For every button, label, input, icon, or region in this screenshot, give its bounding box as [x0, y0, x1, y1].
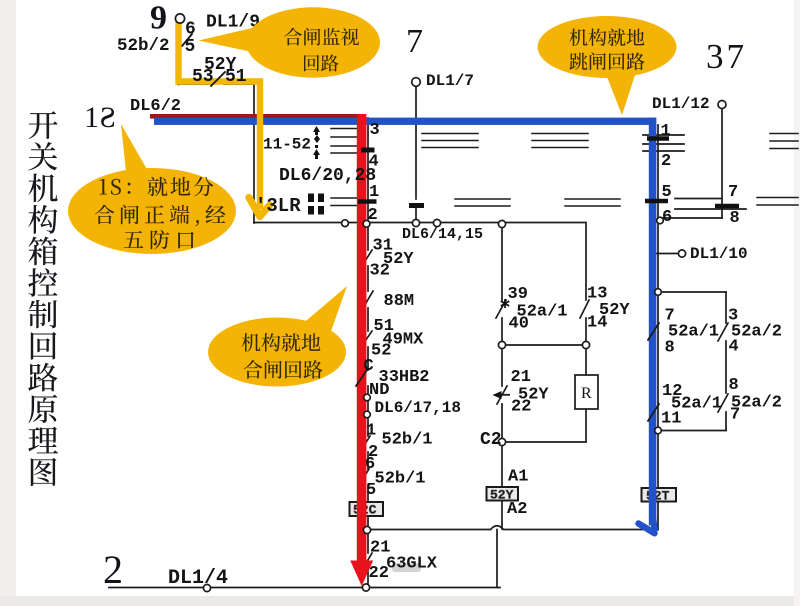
svg-text:1: 1	[369, 183, 379, 202]
svg-text:52a/1: 52a/1	[668, 323, 719, 342]
svg-text:32: 32	[370, 262, 390, 281]
svg-text:37: 37	[706, 37, 747, 76]
svg-text:21: 21	[511, 368, 531, 387]
svg-text:7: 7	[728, 183, 738, 202]
svg-text:53: 53	[192, 67, 214, 87]
svg-text:8: 8	[730, 209, 740, 228]
svg-text:22: 22	[369, 564, 389, 583]
svg-text:7: 7	[406, 23, 423, 60]
svg-text:A1: A1	[508, 468, 528, 487]
svg-text:DL6/20,28: DL6/20,28	[279, 166, 376, 186]
svg-text:8: 8	[665, 339, 675, 358]
svg-text:5: 5	[185, 37, 196, 57]
svg-text:3: 3	[370, 121, 380, 140]
svg-text:6: 6	[662, 208, 672, 227]
svg-text:88M: 88M	[384, 292, 415, 311]
svg-text:'3LR: '3LR	[255, 195, 301, 217]
svg-text:DL6/14,15: DL6/14,15	[402, 226, 483, 243]
svg-text:2: 2	[103, 547, 123, 592]
svg-text:39: 39	[508, 285, 528, 304]
svg-text:11: 11	[661, 410, 681, 429]
svg-text:A2: A2	[507, 500, 527, 519]
svg-text:DL6/17,18: DL6/17,18	[375, 399, 461, 417]
svg-text:52: 52	[371, 342, 391, 361]
svg-text:5: 5	[366, 481, 376, 500]
svg-text:1: 1	[366, 422, 376, 441]
svg-text:2: 2	[661, 152, 671, 171]
svg-text:C: C	[364, 357, 374, 376]
svg-text:1: 1	[84, 101, 99, 134]
svg-text:22: 22	[511, 398, 531, 417]
svg-text:DL1/4: DL1/4	[168, 567, 228, 590]
svg-text:DL1/7: DL1/7	[426, 72, 474, 90]
svg-text:C2: C2	[480, 430, 502, 450]
svg-text:DL1/12: DL1/12	[652, 95, 710, 113]
svg-text:9: 9	[150, 0, 167, 37]
svg-text:R: R	[581, 385, 592, 402]
svg-text:63GLX: 63GLX	[386, 555, 438, 574]
svg-text:52b/1: 52b/1	[375, 470, 426, 489]
svg-text:4: 4	[369, 153, 379, 172]
svg-text:52b/2: 52b/2	[117, 36, 170, 56]
svg-text:5: 5	[662, 183, 672, 202]
svg-text:2: 2	[368, 206, 378, 225]
svg-text:51: 51	[225, 67, 247, 87]
svg-text:4: 4	[729, 338, 739, 357]
svg-text:7: 7	[730, 406, 740, 425]
svg-text:S: S	[99, 101, 116, 134]
svg-text:1: 1	[661, 122, 671, 141]
svg-text:DL1/10: DL1/10	[690, 245, 748, 263]
svg-text:40: 40	[509, 315, 529, 334]
svg-text:DL6/2: DL6/2	[130, 97, 181, 116]
svg-text:ND: ND	[369, 381, 389, 400]
svg-text:14: 14	[587, 314, 607, 333]
svg-text:8: 8	[729, 376, 739, 395]
svg-text:11-52: 11-52	[263, 136, 311, 154]
svg-text:52b/1: 52b/1	[382, 431, 433, 450]
